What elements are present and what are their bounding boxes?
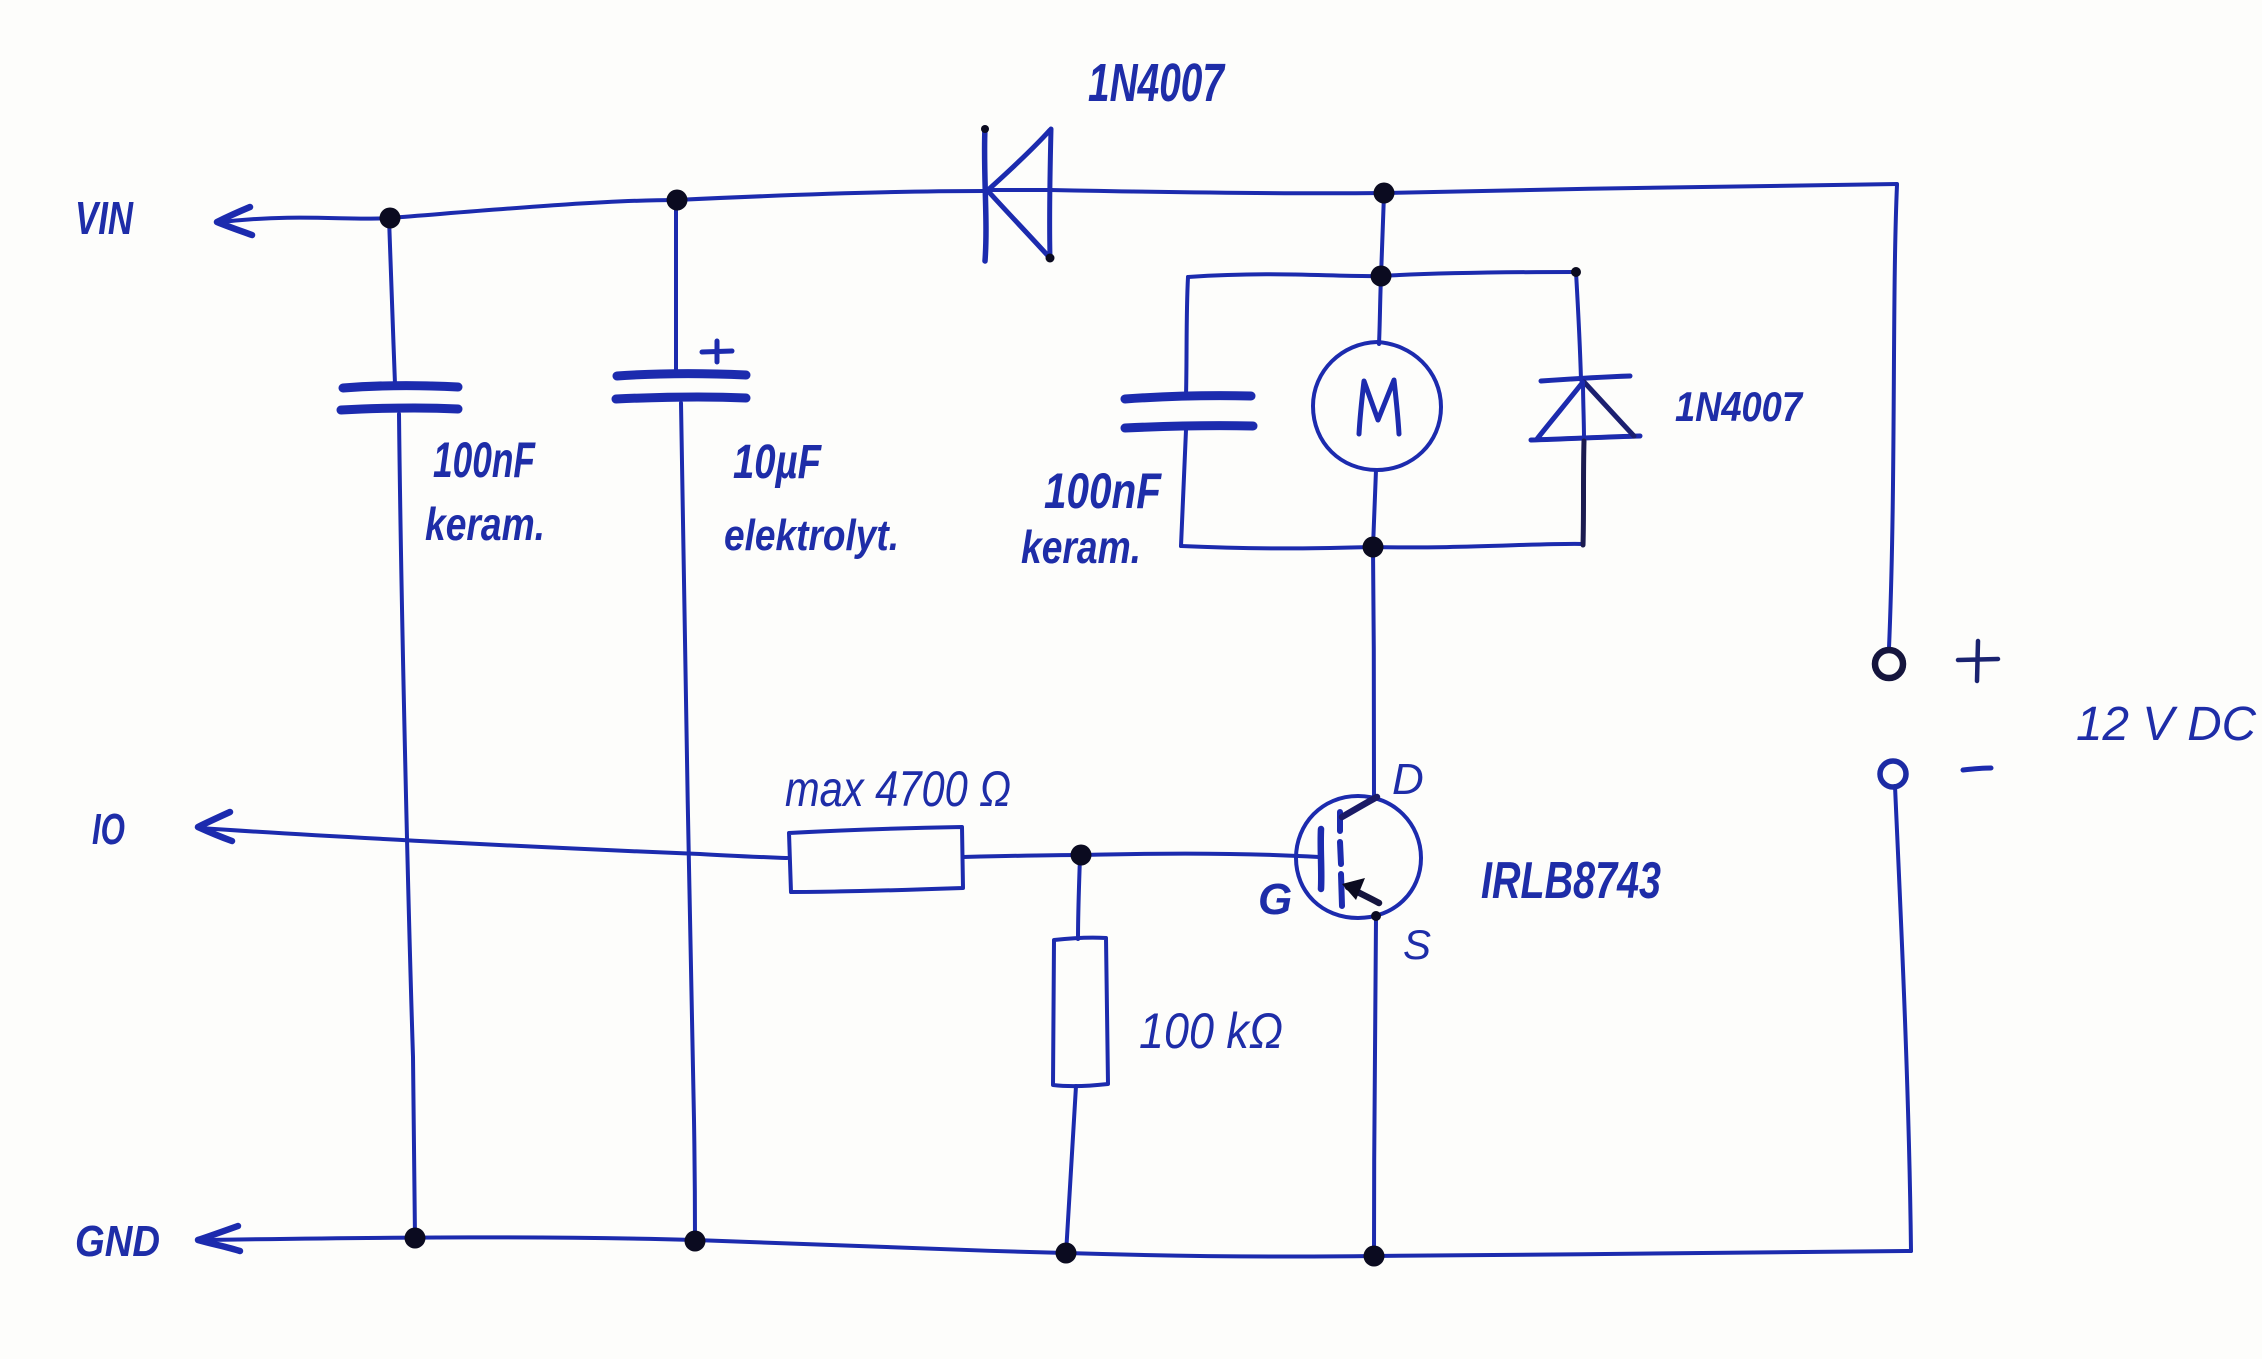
junction dot motor block top bbox=[1371, 266, 1392, 287]
svg-text:100nF: 100nF bbox=[433, 432, 536, 488]
wire source to GND bbox=[1374, 918, 1376, 1256]
capacitor C3 plates bbox=[1125, 396, 1251, 399]
diode D2 triangle bbox=[1531, 382, 1640, 440]
junction dot GND/C1 bbox=[405, 1228, 426, 1249]
junction dot GND/source bbox=[1364, 1246, 1385, 1267]
motor block right branch upper bbox=[1576, 272, 1581, 380]
capacitor C2 plus sign bbox=[702, 341, 732, 362]
svg-text:D: D bbox=[1392, 755, 1424, 804]
svg-text:IRLB8743: IRLB8743 bbox=[1481, 852, 1661, 910]
transistor Q1 source arrowhead bbox=[1342, 878, 1365, 900]
terminal plus sign bbox=[1958, 641, 1998, 681]
node IO arrow bbox=[198, 812, 232, 841]
wire stub junction to motor block bbox=[1381, 194, 1384, 277]
motor block bottom wire bbox=[1181, 544, 1583, 549]
svg-text:max 4700 Ω: max 4700 Ω bbox=[785, 761, 1011, 817]
wire R2 to GND bbox=[1066, 1086, 1076, 1254]
svg-text:1N4007: 1N4007 bbox=[1088, 53, 1226, 113]
svg-text:G: G bbox=[1258, 875, 1292, 924]
wire gate bbox=[1082, 854, 1319, 857]
motor block top wire bbox=[1188, 272, 1576, 277]
svg-text:S: S bbox=[1403, 921, 1431, 968]
motor M1 circle bbox=[1313, 342, 1441, 470]
motor M1 bottom lead bbox=[1373, 470, 1376, 547]
motor M1 letter M bbox=[1359, 380, 1399, 434]
diode D1 cathode bar bbox=[985, 128, 986, 261]
motor block right branch lower bbox=[1583, 441, 1584, 545]
wire diode to right rail bbox=[1050, 184, 1897, 193]
transistor Q1 source arrow shaft bbox=[1348, 887, 1379, 903]
transistor Q1 gate bar bbox=[1317, 829, 1324, 889]
node VIN arrow bbox=[217, 207, 252, 235]
svg-text:VIN: VIN bbox=[75, 192, 134, 244]
diode D1 bar top dot bbox=[981, 125, 989, 133]
diode D1 triangle bbox=[988, 129, 1051, 258]
capacitor C2 bottom lead bbox=[681, 403, 695, 1241]
svg-text:100nF: 100nF bbox=[1044, 463, 1162, 519]
svg-text:IO: IO bbox=[92, 805, 125, 854]
wire right rail lower bbox=[1895, 786, 1911, 1251]
capacitor C2 plates bbox=[617, 374, 746, 376]
wire through diode D1 triangle bbox=[988, 188, 1052, 192]
node GND arrow bbox=[198, 1226, 240, 1251]
transistor Q1 source dot bbox=[1371, 911, 1381, 921]
junction dot motor block top right corner bbox=[1571, 267, 1581, 277]
transistor Q1 drain diagonal bbox=[1342, 797, 1377, 817]
wire right rail upper bbox=[1889, 185, 1897, 648]
terminal plus circle bbox=[1875, 650, 1903, 678]
junction dot VIN/C1 bbox=[380, 208, 401, 229]
svg-text:keram.: keram. bbox=[425, 498, 545, 550]
junction dot motor block bottom bbox=[1363, 537, 1384, 558]
junction dot VIN/C2 bbox=[667, 190, 688, 211]
terminal minus sign bbox=[1963, 768, 1991, 770]
wire motor to MOSFET drain bbox=[1373, 548, 1374, 798]
junction dot GND/C2 bbox=[685, 1231, 706, 1252]
diode D1 triangle corner dot bbox=[1046, 254, 1055, 263]
svg-text:100 kΩ: 100 kΩ bbox=[1139, 1003, 1283, 1059]
junction dot top rail/motor bbox=[1374, 183, 1395, 204]
wire resistor to gate junction bbox=[964, 855, 1081, 857]
svg-text:keram.: keram. bbox=[1021, 521, 1141, 573]
svg-text:10µF: 10µF bbox=[733, 436, 822, 489]
wire VIN rail left bbox=[222, 191, 984, 222]
capacitor C1 top lead bbox=[389, 218, 395, 384]
motor M1 top lead bbox=[1379, 277, 1381, 344]
junction dot gate node bbox=[1071, 845, 1092, 866]
wire junction to R2 bbox=[1078, 857, 1080, 939]
resistor R2 box bbox=[1053, 938, 1108, 1086]
motor block left branch lower bbox=[1181, 430, 1186, 546]
junction dot GND/R2 bbox=[1056, 1243, 1077, 1264]
motor block left branch upper bbox=[1186, 277, 1188, 396]
transistor Q1 channel dashes bbox=[1340, 812, 1342, 906]
svg-text:1N4007: 1N4007 bbox=[1675, 383, 1803, 430]
capacitor C1 bottom lead bbox=[399, 414, 415, 1238]
capacitor C2 top lead bbox=[674, 200, 678, 371]
svg-text:GND: GND bbox=[75, 1217, 160, 1266]
diode D2 cathode bar bbox=[1541, 376, 1630, 381]
terminal minus circle bbox=[1880, 761, 1906, 787]
wire through diode D2 triangle bbox=[1583, 382, 1584, 440]
svg-text:12 V DC: 12 V DC bbox=[2076, 698, 2256, 751]
wire GND rail bbox=[205, 1237, 1911, 1256]
resistor R1 box bbox=[789, 827, 963, 892]
capacitor C1 plates bbox=[343, 386, 458, 388]
transistor Q1 circle bbox=[1296, 796, 1421, 918]
wire IO to resistor bbox=[199, 828, 787, 858]
svg-text:elektrolyt.: elektrolyt. bbox=[724, 511, 899, 560]
